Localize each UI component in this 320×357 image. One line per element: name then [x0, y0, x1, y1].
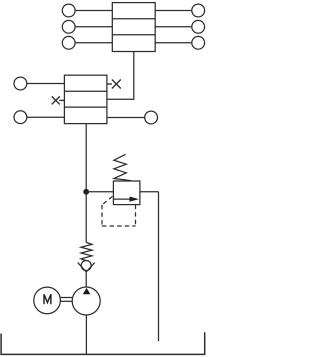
wire C1 to V2 — [27, 83, 65, 85]
wire V1 to B2 — [155, 26, 192, 28]
valve V2 body (middle 3-section valve block) — [64, 75, 107, 123]
pump P1 flow triangle — [83, 288, 91, 294]
wire V2 bottom port down to junction J1 — [85, 124, 87, 192]
port circle B3 (V1 right bottom) — [192, 36, 205, 49]
port circle C1 (V2 left top) — [14, 77, 27, 90]
check valve CV1 poppet ball — [81, 261, 91, 271]
pump P1 body — [72, 287, 100, 315]
wire A1 to V1 — [75, 10, 112, 12]
coupling shaft M1 to P1 (double line) — [60, 298, 72, 302]
port circle A3 (V1 left bottom) — [62, 36, 75, 49]
wire CV1 to pump P1 inlet — [85, 272, 87, 287]
relief valve RV1 flow arrow — [113, 197, 138, 202]
port circle A2 (V1 left middle) — [62, 20, 75, 33]
wire A3 to V1 — [75, 42, 112, 44]
wire junction J1 to relief valve RV1 inlet — [86, 191, 113, 193]
wire V1 bottom port to V2 right middle port — [107, 52, 134, 100]
wire C2 to V2 — [27, 116, 65, 118]
check valve CV1 seat — [78, 263, 95, 272]
port circle A1 (V1 left top) — [62, 4, 75, 17]
plugged port X1 (V2 left middle, stub with cross) — [52, 96, 65, 104]
port circle C2 (V2 left bottom) — [14, 111, 27, 124]
pilot line (dashed) from RV1 inlet looping under body — [102, 196, 136, 226]
port circle D1 (V2 right bottom) — [145, 111, 158, 124]
wire P1 suction line into tank — [85, 315, 87, 354]
valve V1 body (top 3-section manifold block) — [112, 3, 155, 52]
wire tank return riser (down into reservoir) — [158, 192, 160, 341]
relief valve RV1 spring — [114, 154, 131, 180]
port circle B2 (V1 right middle) — [192, 20, 205, 33]
wire V1 to B1 — [155, 10, 192, 12]
junction J1 (node dot on pressure line) — [83, 189, 89, 195]
relief valve RV1 body — [113, 181, 139, 205]
electric motor M1 — [34, 287, 61, 314]
plugged port X2 (V2 right top, stub with cross) — [107, 80, 121, 89]
port circle B1 (V1 right top) — [192, 4, 205, 17]
wire V1 to B3 — [155, 42, 192, 44]
tank reservoir outline — [0, 332, 205, 354]
wire RV1 outlet to tank return riser — [140, 191, 159, 193]
wire V2 right bottom to port circle D1 — [107, 117, 145, 119]
wire junction J1 down to check valve CV1 — [85, 192, 87, 243]
wire A2 to V1 — [75, 26, 112, 28]
check valve CV1 spring — [81, 242, 92, 260]
